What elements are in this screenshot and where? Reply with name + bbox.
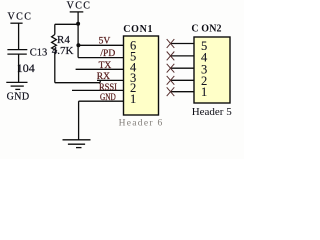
svg-text:RX: RX xyxy=(97,72,110,82)
connector CON2 xyxy=(191,24,232,119)
svg-text:TX: TX xyxy=(99,61,112,71)
svg-text:104: 104 xyxy=(17,61,35,75)
ground (left, under C13) xyxy=(6,82,29,102)
wire stub pin3 CON2 xyxy=(171,67,195,69)
wire RSSI row xyxy=(72,89,124,91)
svg-text:GND: GND xyxy=(7,92,30,103)
svg-text:RSSI: RSSI xyxy=(99,83,117,93)
no-ERC X pin4 xyxy=(167,52,175,61)
svg-text:C13: C13 xyxy=(30,48,48,59)
power VCC (top, feeds R4 / 5V / PD) xyxy=(67,1,92,58)
svg-text:C ON2: C ON2 xyxy=(191,24,221,35)
wire TX row xyxy=(76,68,124,70)
junction dot (5V branch) xyxy=(76,43,80,47)
wire (R4 bottom to RX net) xyxy=(55,82,100,84)
ground (bottom center) xyxy=(63,140,91,148)
svg-text:VCC: VCC xyxy=(8,12,33,23)
power VCC (left) xyxy=(8,12,33,50)
svg-text:VCC: VCC xyxy=(67,1,92,12)
wire RX row xyxy=(97,79,124,81)
svg-text:CON1: CON1 xyxy=(123,24,153,35)
svg-text:1: 1 xyxy=(201,85,207,99)
wire GND row xyxy=(79,100,124,102)
svg-text:GND: GND xyxy=(100,93,116,103)
connector CON1 xyxy=(119,24,164,128)
wire stub pin5 CON2 xyxy=(171,43,195,45)
svg-text:4.7K: 4.7K xyxy=(52,45,74,57)
wire (GND row down to ground) xyxy=(78,101,80,139)
wire /PD row xyxy=(78,57,123,59)
svg-text:/PD: /PD xyxy=(100,49,115,59)
wire stub pin4 CON2 xyxy=(171,55,195,57)
svg-text:Header 5: Header 5 xyxy=(192,106,233,118)
no-ERC X pin1 xyxy=(167,87,175,96)
no-ERC X pin2 xyxy=(167,76,175,85)
no-ERC X pin5 xyxy=(167,39,175,48)
svg-text:Header 6: Header 6 xyxy=(119,118,164,128)
resistor R4 xyxy=(52,24,74,82)
junction dot (VCC / R4 branch) xyxy=(76,22,80,26)
wire 5V row xyxy=(78,44,123,46)
wire stub pin1 CON2 xyxy=(171,91,195,93)
wire stub pin2 CON2 xyxy=(171,79,195,81)
wire (VCC junction to R4 top) xyxy=(55,23,78,25)
svg-text:5V: 5V xyxy=(99,37,111,47)
capacitor C13 xyxy=(7,48,47,83)
svg-text:1: 1 xyxy=(130,92,136,106)
no-ERC X pin3 xyxy=(167,64,175,73)
